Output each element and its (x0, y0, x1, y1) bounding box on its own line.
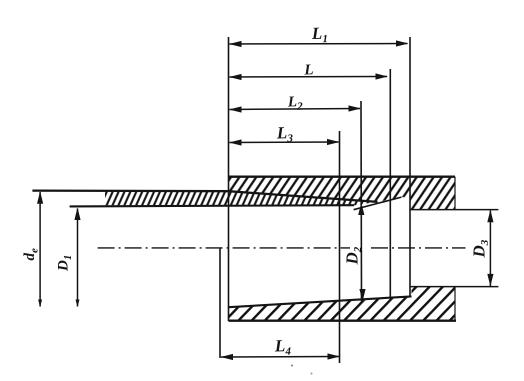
fitting top outer line (229, 176, 456, 178)
dimension L4 (221, 336, 341, 360)
dimension L3 (229, 123, 340, 146)
dimension L1 (229, 24, 409, 48)
pipe wall top hatched section (105, 191, 378, 206)
dimension D1 (56, 208, 81, 308)
fitting top right end face (454, 177, 456, 210)
dimension de (22, 191, 43, 307)
fitting body top hatched section (229, 177, 456, 210)
pipe end chamfer line B (354, 197, 402, 210)
dimension L (229, 62, 388, 80)
socket step face and L1 right extension line (409, 37, 411, 296)
L4 left extension line (219, 249, 221, 359)
bore top line with D3 extension (410, 209, 498, 211)
dimension D3 (470, 210, 494, 287)
pipe end face and L right extension line (389, 69, 391, 297)
socket mouth face and L extension line (228, 37, 230, 321)
dimension L2 (229, 94, 361, 113)
dimension D2 (343, 203, 366, 302)
L2 right extension and D2 dimension line (360, 101, 363, 302)
centerline right part (371, 247, 466, 249)
paper speck (291, 365, 293, 367)
svg-text:L: L (303, 62, 314, 78)
fitting body bottom hatched section (229, 287, 456, 321)
pipe outer top line (32, 191, 377, 202)
fitting bottom outer line (229, 320, 457, 322)
fitting bottom right end face (454, 287, 456, 321)
pipe inner top line (70, 205, 354, 206)
paper speck (311, 373, 313, 375)
bottom socket taper line (229, 296, 412, 307)
L3 right extension line (339, 131, 341, 363)
bore bottom line with D3 extension (410, 286, 498, 288)
centerline dash-dot (98, 247, 350, 249)
